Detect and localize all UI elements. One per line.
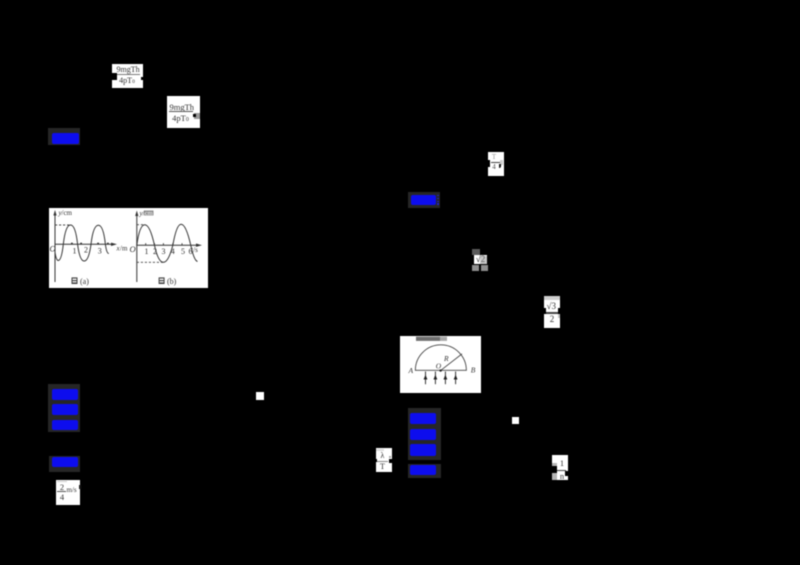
svg-text:2: 2 (84, 246, 88, 255)
svg-text:R: R (443, 354, 449, 363)
svg-text:1: 1 (73, 247, 77, 256)
svg-text:6: 6 (189, 247, 193, 256)
svg-text:3: 3 (162, 247, 166, 256)
svg-text:1: 1 (145, 247, 149, 256)
svg-text:/s: /s (193, 246, 198, 254)
svg-text:2: 2 (153, 247, 157, 256)
svg-text:5: 5 (181, 247, 185, 256)
svg-text:B: B (471, 365, 476, 374)
svg-text:A: A (408, 366, 414, 375)
svg-text:O: O (436, 361, 442, 370)
svg-text:O: O (130, 244, 136, 254)
svg-text:(b): (b) (167, 277, 177, 286)
svg-text:/cm: /cm (62, 209, 73, 217)
svg-text:O: O (50, 244, 56, 254)
svg-text:(a): (a) (80, 277, 89, 286)
svg-text:4: 4 (171, 247, 175, 256)
svg-text:/m: /m (120, 245, 128, 253)
svg-text:cm: cm (145, 210, 153, 217)
svg-text:3: 3 (98, 247, 102, 256)
